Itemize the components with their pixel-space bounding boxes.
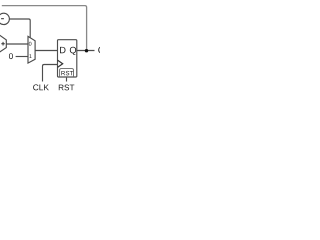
wire Q output (77, 50, 95, 52)
mux M1 trapezoid (28, 36, 35, 63)
wire CLK (43, 65, 58, 82)
wire adder to mux input 0 (6, 43, 28, 45)
svg-text:CLK: CLK (33, 82, 50, 92)
svg-text:Q: Q (69, 45, 76, 55)
RST pin box (60, 69, 74, 77)
svg-text:D: D (59, 45, 66, 55)
svg-text:RST: RST (61, 70, 74, 77)
svg-text:C: C (98, 45, 100, 56)
junction dot (85, 49, 88, 52)
svg-text:0: 0 (9, 51, 14, 61)
svg-text:1: 1 (29, 54, 32, 60)
minus sign (1, 18, 4, 20)
wire constant to mux input 1 (16, 56, 28, 58)
subtractor U1 circle (0, 13, 9, 24)
clock triangle (58, 60, 63, 67)
adder U2 body (0, 35, 6, 52)
wire feedback top (2, 6, 87, 50)
wire RST (66, 78, 68, 82)
wire mux output to D input (35, 50, 57, 52)
svg-text:RST: RST (58, 83, 74, 92)
D flip-flop U3 box (58, 40, 77, 77)
svg-text:0: 0 (29, 42, 32, 48)
wire select from U1 to mux (9, 19, 30, 37)
plus sign (1, 42, 5, 46)
